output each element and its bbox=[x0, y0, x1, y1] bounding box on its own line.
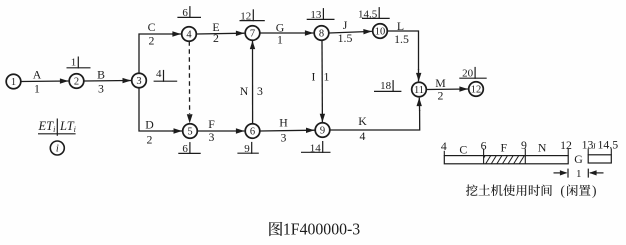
svg-text:1: 1 bbox=[11, 77, 16, 88]
wire activity M (11->12) bbox=[427, 86, 468, 91]
dimension arrows gap width 1 (12 to 13) bbox=[554, 168, 604, 180]
svg-text:4: 4 bbox=[360, 129, 366, 143]
legend ET_i|LT_i notation bbox=[38, 119, 76, 136]
svg-text:12: 12 bbox=[560, 138, 572, 152]
svg-text:3: 3 bbox=[209, 130, 215, 144]
svg-text:18: 18 bbox=[380, 80, 392, 92]
node 4 bbox=[182, 27, 197, 42]
svg-text:2: 2 bbox=[74, 77, 79, 88]
svg-text:4: 4 bbox=[441, 139, 447, 153]
node 7 bbox=[245, 26, 260, 41]
svg-text:12: 12 bbox=[471, 85, 482, 96]
svg-text:1: 1 bbox=[34, 81, 40, 95]
svg-text:G: G bbox=[574, 152, 583, 166]
wire activity G (7->8) bbox=[260, 30, 313, 35]
node 3 bbox=[132, 73, 147, 88]
ET label 4| at node 3 bbox=[154, 68, 178, 82]
svg-text:2: 2 bbox=[149, 34, 155, 48]
svg-text:K: K bbox=[358, 114, 367, 128]
wire activity I (8->9, vertical down) bbox=[320, 40, 325, 122]
node 2 bbox=[69, 74, 84, 89]
svg-text:1.5: 1.5 bbox=[394, 32, 409, 46]
svg-text:3: 3 bbox=[257, 84, 263, 98]
svg-text:N: N bbox=[240, 84, 249, 98]
wire activity F (5->6) bbox=[198, 128, 245, 133]
svg-text:1: 1 bbox=[277, 33, 283, 47]
svg-text:3: 3 bbox=[136, 76, 141, 87]
svg-text:6: 6 bbox=[481, 138, 487, 152]
wire activity C (3->4, up then right) bbox=[139, 31, 181, 73]
svg-text:6: 6 bbox=[250, 127, 255, 138]
wire activity N (6->7, vertical up) bbox=[250, 41, 255, 124]
node 5 bbox=[183, 124, 198, 139]
svg-text:B: B bbox=[97, 67, 105, 81]
second small bar J (13 to 14.5) bbox=[588, 148, 611, 163]
bar chart segment letters C F N bbox=[459, 141, 547, 157]
svg-text:L: L bbox=[397, 19, 404, 33]
svg-text:7: 7 bbox=[250, 29, 255, 40]
node 11 bbox=[412, 82, 427, 97]
svg-text:J: J bbox=[343, 18, 348, 32]
node 1 bbox=[6, 74, 21, 89]
svg-text:ETi: ETi bbox=[38, 119, 56, 134]
svg-text:C: C bbox=[459, 142, 467, 156]
svg-text:3: 3 bbox=[281, 131, 287, 145]
wire activity J (8->10) bbox=[329, 29, 372, 34]
svg-text:F: F bbox=[501, 141, 508, 155]
ET label 13| at node 8 bbox=[307, 8, 335, 21]
svg-text:(: ( bbox=[560, 183, 565, 198]
ET label 1| at node 2 bbox=[67, 56, 91, 68]
svg-text:9: 9 bbox=[521, 138, 527, 152]
bar chart main bar C|F|N (4 to 12) bbox=[444, 156, 568, 164]
ET label 18| at node 11 bbox=[374, 80, 401, 92]
ET label 6| at node 4 bbox=[177, 6, 201, 19]
node 10 bbox=[373, 24, 388, 39]
svg-text:10: 10 bbox=[375, 27, 386, 38]
svg-text:2: 2 bbox=[438, 89, 444, 103]
wire activity D (3->5, down then right) bbox=[139, 88, 182, 134]
wire activity E (4->7) bbox=[197, 31, 245, 36]
svg-text:11: 11 bbox=[414, 85, 424, 96]
svg-text:3: 3 bbox=[98, 82, 104, 96]
svg-text:): ) bbox=[592, 183, 597, 198]
figure caption 图 1F400000-3 bbox=[269, 220, 360, 239]
wire activity B (2->3) bbox=[84, 78, 131, 83]
bar chart tick marks above main bar bbox=[444, 149, 568, 156]
ET label 14.5| at node 10 bbox=[358, 7, 390, 20]
svg-text:1F400000-3: 1F400000-3 bbox=[283, 220, 360, 239]
svg-text:4: 4 bbox=[156, 68, 162, 80]
ET label 20| at node 12 bbox=[459, 67, 486, 80]
svg-text:2: 2 bbox=[147, 133, 153, 147]
svg-text:I: I bbox=[312, 69, 316, 83]
svg-text:8: 8 bbox=[319, 29, 324, 40]
svg-text:1: 1 bbox=[576, 168, 582, 180]
svg-text:14.5: 14.5 bbox=[597, 138, 618, 152]
bar chart scale numbers 4 6 9 12 bbox=[441, 138, 572, 153]
svg-text:1: 1 bbox=[324, 69, 330, 83]
svg-text:2: 2 bbox=[213, 31, 219, 45]
node 12 bbox=[469, 82, 484, 97]
node 6 bbox=[245, 124, 260, 139]
wire activity H (6->9) bbox=[260, 128, 314, 133]
legend node circle i bbox=[50, 141, 64, 155]
node 9 bbox=[315, 123, 330, 138]
small bar numbers 13 14.5 and label J bbox=[582, 138, 619, 152]
svg-text:LTi: LTi bbox=[59, 119, 76, 134]
svg-text:1.5: 1.5 bbox=[338, 31, 353, 45]
svg-text:4: 4 bbox=[186, 30, 192, 41]
caption: excavator usage time (idle) bbox=[466, 183, 597, 198]
wire activity L (10->11, right then down) bbox=[388, 31, 422, 81]
ET label 6| at node 5 bbox=[178, 142, 200, 155]
node 8 bbox=[314, 26, 329, 41]
svg-text:H: H bbox=[279, 116, 288, 130]
wire activity A (1->2) bbox=[21, 78, 68, 83]
ET label 14| at node 9 bbox=[301, 141, 331, 154]
svg-text:D: D bbox=[145, 117, 154, 131]
svg-text:N: N bbox=[538, 141, 547, 155]
hatched segment F (idle) bbox=[484, 156, 525, 164]
svg-text:i: i bbox=[56, 144, 59, 155]
svg-text:A: A bbox=[33, 68, 42, 82]
ET label 12| at node 7 bbox=[240, 9, 265, 22]
svg-text:9: 9 bbox=[320, 126, 325, 137]
wire dummy activity (4->5, dashed vertical down) bbox=[187, 41, 193, 123]
ET label 9| at node 6 bbox=[237, 142, 258, 155]
svg-text:C: C bbox=[148, 20, 156, 34]
wire activity K (9->11, right then up) bbox=[330, 98, 422, 130]
svg-text:5: 5 bbox=[187, 127, 192, 138]
svg-text:1: 1 bbox=[71, 56, 77, 68]
svg-text:F: F bbox=[208, 117, 215, 131]
